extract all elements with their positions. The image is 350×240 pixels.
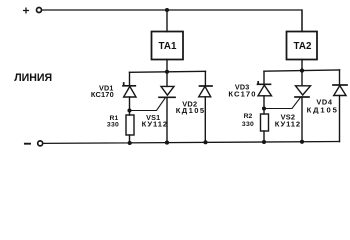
svg-text:R2: R2 [244, 113, 253, 120]
thyristor VS1 КУ112 [142, 86, 175, 128]
terminal X2 (-) [38, 141, 43, 146]
node cell1 junction [165, 70, 169, 74]
wire VD2 bottom [204, 97, 206, 143]
diode VD2 КД105 [176, 86, 212, 115]
transformer TA2 [287, 32, 318, 60]
node gate1 junction [127, 108, 131, 112]
zener diode VD1 КС170 [91, 83, 136, 99]
wire TA2 top drop [301, 10, 303, 32]
wire VD1 top [129, 72, 131, 86]
svg-text:330: 330 [242, 121, 254, 128]
terminal X1 (+) [37, 8, 42, 13]
resistor R2 330 [242, 109, 269, 132]
wire TA1 top drop [166, 10, 168, 32]
transformer TA1 [152, 32, 184, 60]
node gate2 junction [262, 106, 266, 110]
resistor R1 330 [107, 111, 134, 136]
wire VD2 top [204, 71, 206, 86]
zener diode VD3 КС170 [228, 82, 271, 99]
wire VS2 top [301, 71, 303, 86]
svg-text:КС170: КС170 [91, 90, 114, 99]
wire VS2 bottom [301, 97, 303, 142]
svg-text:КС170: КС170 [228, 89, 256, 98]
svg-text:КД105: КД105 [307, 106, 339, 115]
wire bottom rail [43, 142, 339, 144]
node VD2 bottom junction [203, 140, 207, 144]
wire VS1 bottom [166, 97, 168, 142]
wire top rail [42, 10, 302, 32]
svg-text:ЛИНИЯ: ЛИНИЯ [14, 72, 52, 84]
wire VD1 to node [129, 97, 131, 111]
svg-text:330: 330 [107, 122, 119, 129]
wire cell1 rail [130, 71, 206, 72]
wire gate VS2 [264, 97, 301, 109]
node top junction [165, 8, 169, 12]
svg-text:КД105: КД105 [176, 106, 206, 115]
wire cell2 rail [264, 70, 340, 71]
wire R1 bottom [129, 135, 131, 143]
node VS2 bottom junction [300, 140, 304, 144]
node R2 bottom junction [262, 140, 266, 144]
wire VD4 top [339, 70, 341, 85]
wire VD3 top [263, 71, 265, 84]
node R1 bottom junction [128, 141, 132, 145]
wire gate VS1 [130, 98, 166, 111]
svg-text:ТА1: ТА1 [159, 41, 177, 52]
svg-text:КУ112: КУ112 [275, 119, 301, 128]
diode VD4 КД105 [307, 85, 347, 115]
minus terminal label [25, 143, 30, 145]
wire TA2 bottom [301, 60, 303, 71]
thyristor VS2 КУ112 [275, 86, 311, 129]
wire VS1 top [166, 72, 168, 87]
wire VD4 bottom [339, 96, 341, 142]
wire TA1 bottom [166, 60, 168, 73]
plus terminal label [24, 8, 29, 13]
node VS1 bottom junction [165, 141, 169, 145]
node cell2 junction [300, 69, 304, 73]
wire R2 bottom [263, 131, 265, 142]
svg-text:КУ112: КУ112 [142, 119, 168, 128]
wire VD3 to node [263, 96, 265, 109]
svg-text:ТА2: ТА2 [294, 41, 312, 52]
